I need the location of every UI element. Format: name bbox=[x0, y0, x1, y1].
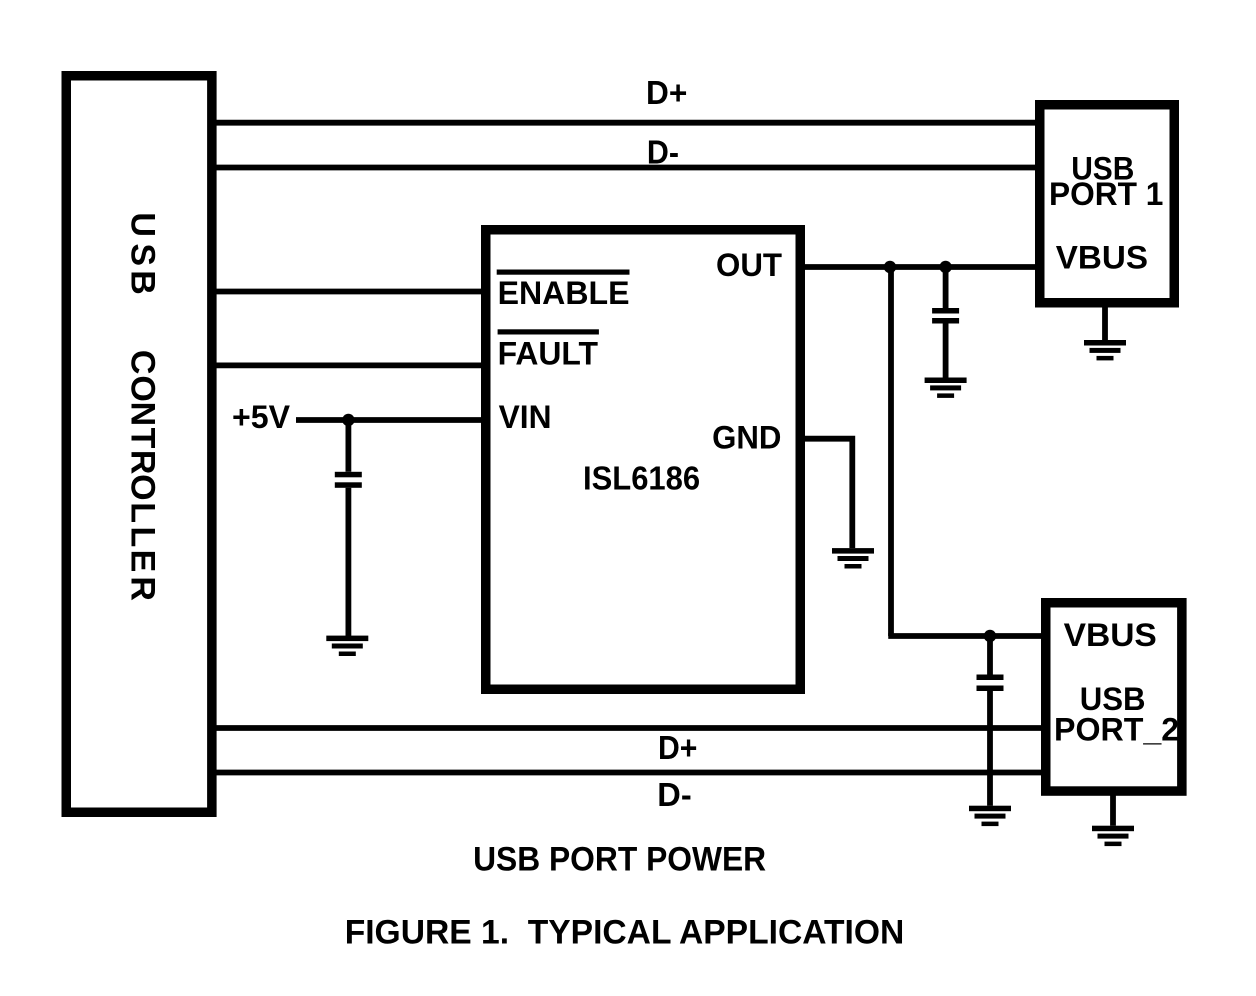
USB controller box U1 bbox=[66, 76, 212, 813]
svg-text:N: N bbox=[124, 402, 162, 427]
wire GND bbox=[800, 439, 852, 548]
wire FAULT bbox=[212, 362, 485, 368]
svg-text:+5V: +5V bbox=[232, 399, 291, 435]
svg-text:FAULT: FAULT bbox=[498, 336, 599, 372]
svg-text:L: L bbox=[124, 527, 162, 548]
ground (below C3) bbox=[326, 636, 368, 656]
svg-text:U: U bbox=[124, 212, 162, 237]
svg-text:C: C bbox=[124, 350, 162, 375]
svg-text:S: S bbox=[124, 243, 162, 266]
svg-text:PORT_2: PORT_2 bbox=[1054, 712, 1179, 748]
svg-text:E: E bbox=[124, 550, 162, 573]
ground (port 2) bbox=[1092, 826, 1134, 846]
svg-text:O: O bbox=[124, 474, 162, 500]
node on OUT wire (to port 2 branch) bbox=[884, 261, 896, 273]
wire OUT to port 1 VBUS bbox=[800, 264, 1040, 270]
svg-text:O: O bbox=[124, 375, 162, 401]
svg-text:OUT: OUT bbox=[716, 247, 782, 283]
svg-text:FIGURE 1. TYPICAL APPLICATION: FIGURE 1. TYPICAL APPLICATION bbox=[345, 914, 905, 952]
ground (GND pin) bbox=[832, 548, 874, 568]
wire port 1 ground stem bbox=[1102, 303, 1108, 340]
wire +5V to VIN bbox=[296, 417, 485, 423]
svg-text:L: L bbox=[124, 502, 162, 523]
svg-text:USB PORT POWER: USB PORT POWER bbox=[473, 841, 766, 879]
capacitor C1 (port 1 bypass) bbox=[932, 267, 959, 378]
svg-text:D-: D- bbox=[647, 134, 679, 171]
USB PORT_2 box J2 bbox=[1046, 603, 1182, 791]
ground (below C1) bbox=[925, 378, 967, 398]
USB PORT 1 box J1 bbox=[1040, 105, 1175, 303]
wire ENABLE bbox=[212, 289, 485, 295]
svg-text:R: R bbox=[124, 576, 162, 601]
USB controller label (vertical) bbox=[124, 212, 162, 601]
svg-text:D+: D+ bbox=[646, 74, 687, 111]
svg-text:PORT 1: PORT 1 bbox=[1049, 176, 1163, 212]
svg-text:ISL6186: ISL6186 bbox=[583, 459, 700, 496]
node on OUT wire (to C1 branch) bbox=[939, 261, 951, 273]
node on VBUS wire (to C2 branch) bbox=[984, 630, 996, 642]
wire port 2 ground stem bbox=[1110, 791, 1116, 826]
wire to port 2 VBUS bbox=[888, 633, 1045, 639]
svg-text:GND: GND bbox=[712, 420, 781, 456]
svg-text:ENABLE: ENABLE bbox=[498, 275, 630, 311]
svg-text:VBUS: VBUS bbox=[1064, 617, 1157, 653]
svg-text:VIN: VIN bbox=[499, 399, 552, 435]
wire OUT branch down to port 2 bbox=[888, 267, 894, 636]
svg-text:VBUS: VBUS bbox=[1056, 239, 1148, 275]
ground (below C2) bbox=[969, 806, 1011, 826]
svg-text:B: B bbox=[124, 270, 162, 295]
wire D+ bottom bbox=[212, 725, 1045, 731]
svg-text:R: R bbox=[124, 450, 162, 475]
capacitor C3 (input bypass) bbox=[335, 420, 362, 636]
svg-text:D-: D- bbox=[657, 776, 691, 813]
svg-text:T: T bbox=[124, 428, 162, 449]
junction node on +5V wire bbox=[342, 414, 354, 426]
ground (port 1) bbox=[1084, 340, 1126, 360]
wire D- bottom bbox=[212, 770, 1045, 776]
svg-text:D+: D+ bbox=[658, 729, 697, 766]
capacitor C2 (port 2 bypass) bbox=[977, 636, 1004, 806]
wire D- top bbox=[212, 165, 1040, 171]
wire D+ top bbox=[212, 120, 1040, 126]
ISL6186 box U2 bbox=[486, 230, 801, 690]
